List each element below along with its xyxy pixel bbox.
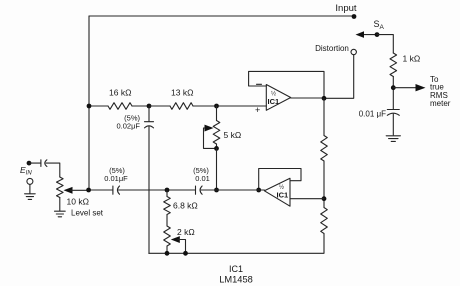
node 13k right / 5k top	[214, 104, 219, 109]
wiper 10k	[64, 187, 73, 194]
op-amp U1a feedback wire	[249, 71, 324, 98]
wire 5k bottom to rail	[216, 148, 218, 190]
capacitor 0.02 uF	[148, 106, 150, 122]
node meter tap	[391, 85, 396, 90]
potentiometer 2 kOhm	[164, 226, 171, 246]
node U1b output	[256, 188, 261, 193]
capacitor 0.01 uF (left, 5%)	[112, 186, 114, 194]
node EIN ground terminal	[27, 178, 33, 184]
wire divider bottom to common rail	[149, 234, 324, 254]
wire 2k bottom to rail	[166, 246, 168, 253]
node SA pivot	[375, 32, 380, 37]
node Distortion output terminal	[351, 49, 356, 54]
node 5k bottom	[214, 146, 219, 151]
resistor divider top	[321, 136, 328, 162]
node U1a output	[322, 96, 327, 101]
node divider tap	[322, 196, 327, 201]
wire top rail from left vertical to Input node	[89, 15, 354, 17]
wire terminal to ground	[29, 184, 31, 193]
svg-text:0.01 μF: 0.01 μF	[359, 110, 386, 119]
ground (10k)	[55, 211, 66, 217]
wire U1a output	[291, 97, 324, 99]
wire divider middle	[323, 161, 325, 208]
capacitor 0.01 uF (meter)	[387, 109, 399, 111]
svg-text:meter: meter	[430, 99, 451, 108]
svg-text:5 kΩ: 5 kΩ	[224, 130, 242, 140]
wire 1k to meter node	[392, 77, 394, 110]
wire rail cap1 to 6.8k node	[119, 189, 196, 191]
wire distortion tap	[324, 55, 354, 99]
op-amp U1a input + wire	[217, 105, 267, 107]
wire left vertical bus	[88, 16, 90, 190]
node 6.8k top	[165, 188, 170, 193]
svg-text:Level set: Level set	[71, 209, 104, 218]
node Input terminal dot	[352, 14, 357, 19]
wire cap to ground	[392, 114, 394, 135]
svg-text:+: +	[255, 105, 260, 115]
wire SA pivot to 1k branch	[377, 35, 393, 53]
svg-text:LM1458: LM1458	[219, 275, 253, 285]
wire cap to 10k top	[46, 163, 60, 177]
node rail / left bus	[86, 188, 91, 193]
svg-text:0.01μF: 0.01μF	[104, 174, 128, 183]
potentiometer 10 kOhm	[57, 177, 64, 198]
capacitor input coupling	[29, 162, 41, 164]
svg-text:IC1: IC1	[277, 191, 289, 200]
svg-text:16 kΩ: 16 kΩ	[109, 88, 131, 98]
wire rail cap2 to U1b output	[201, 189, 264, 191]
op-amp U1b triangle (mirrored)	[264, 178, 290, 206]
node 16k/13k junction	[147, 104, 152, 109]
capacitor 0.01 (right, 5%)	[195, 186, 197, 194]
svg-text:2 kΩ: 2 kΩ	[177, 227, 195, 237]
wire lower rail	[88, 189, 113, 191]
svg-text:Input: Input	[335, 3, 356, 14]
node 2k bottom on rail	[165, 251, 170, 256]
wire 6.8k to 2k	[166, 215, 168, 227]
node 5k on rail	[214, 188, 219, 193]
svg-text:0.01: 0.01	[195, 174, 210, 183]
wire output node to divider	[323, 98, 325, 135]
resistor 16 kOhm	[89, 105, 108, 107]
svg-text:IC1: IC1	[268, 97, 280, 106]
wire U1b input from divider tap	[290, 198, 324, 200]
op-amp U1a triangle	[266, 85, 290, 111]
svg-text:IC1: IC1	[229, 264, 243, 274]
resistor 6.8 kOhm	[166, 190, 168, 197]
wire arrow to RMS meter	[393, 87, 417, 89]
node 2k wiper on rail	[183, 251, 188, 256]
svg-text:Distortion: Distortion	[315, 44, 349, 53]
ground (meter)	[386, 136, 400, 142]
ground (EIN)	[25, 194, 36, 200]
wiper 2k	[171, 236, 180, 243]
svg-text:1 kΩ: 1 kΩ	[403, 54, 421, 64]
svg-text:0.02μF: 0.02μF	[117, 122, 141, 131]
op-amp U1b feedback hook	[259, 169, 301, 191]
resistor divider bottom	[321, 208, 328, 234]
label minus input	[257, 83, 262, 85]
resistor 1 kOhm	[390, 53, 397, 77]
svg-text:13 kΩ: 13 kΩ	[171, 88, 193, 98]
resistor 13 kOhm	[149, 105, 170, 107]
wiper 5k	[204, 127, 207, 129]
svg-text:10 kΩ: 10 kΩ	[67, 197, 89, 207]
switch SA blade arrow	[362, 34, 377, 36]
wire 10k bottom to ground	[59, 198, 61, 211]
svg-text:6.8 kΩ: 6.8 kΩ	[173, 201, 198, 211]
node EIN terminal	[27, 161, 32, 166]
wire 0.02uF to common rail	[148, 127, 150, 254]
potentiometer 5 kOhm	[216, 106, 218, 121]
node 16k left	[87, 104, 92, 109]
